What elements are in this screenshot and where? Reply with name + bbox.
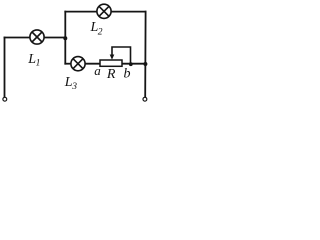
wire top row right <box>111 11 145 13</box>
svg-text:1: 1 <box>36 58 41 68</box>
junction node at L1 branch <box>63 36 67 40</box>
terminal left <box>3 97 7 101</box>
resistor R wiper <box>112 47 131 64</box>
svg-text:2: 2 <box>98 28 103 38</box>
wire rheostat to right <box>122 63 146 65</box>
wire L1 row left <box>5 37 30 39</box>
junction node wiper-to-wire <box>129 62 133 66</box>
svg-text:R: R <box>106 67 116 82</box>
wire top row left <box>65 11 96 13</box>
wire right vertical <box>144 12 146 97</box>
svg-text:b: b <box>124 66 131 81</box>
wire L3 to rheostat <box>85 63 100 65</box>
wire L1 row right <box>44 37 65 39</box>
svg-text:a: a <box>94 63 101 78</box>
lamp L3 <box>71 57 85 71</box>
junction node right wire <box>143 62 147 66</box>
terminal right <box>143 97 147 101</box>
svg-text:3: 3 <box>71 82 77 92</box>
wiper arrowhead <box>110 55 115 60</box>
wire left vertical <box>4 38 6 97</box>
lamp L2 <box>97 4 111 18</box>
wire L3 row left <box>65 63 70 65</box>
resistor R body <box>100 60 122 66</box>
lamp L1 <box>30 30 44 44</box>
wire middle vertical <box>64 12 66 64</box>
